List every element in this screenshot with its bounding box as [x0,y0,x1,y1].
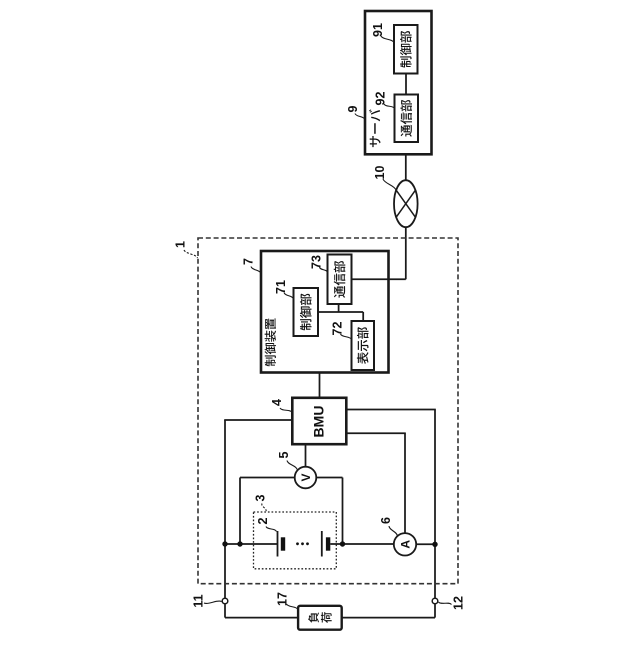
svg-text:BMU: BMU [310,406,326,438]
svg-text:4: 4 [270,399,284,406]
svg-text:12: 12 [452,596,466,610]
svg-text:2: 2 [256,517,270,524]
svg-text:6: 6 [379,517,393,524]
svg-text:92: 92 [374,92,388,106]
svg-text:1: 1 [174,241,188,248]
svg-text:V: V [299,473,313,481]
svg-text:9: 9 [346,105,360,112]
svg-text:17: 17 [276,592,290,606]
svg-text:72: 72 [331,322,345,336]
svg-text:71: 71 [274,280,288,294]
svg-text:11: 11 [192,594,206,607]
svg-text:91: 91 [371,23,385,37]
svg-text:5: 5 [277,451,291,458]
svg-text:10: 10 [373,166,387,180]
svg-text:3: 3 [254,494,268,501]
svg-text:A: A [398,540,412,549]
svg-text:7: 7 [242,258,256,265]
svg-text:73: 73 [310,255,324,269]
